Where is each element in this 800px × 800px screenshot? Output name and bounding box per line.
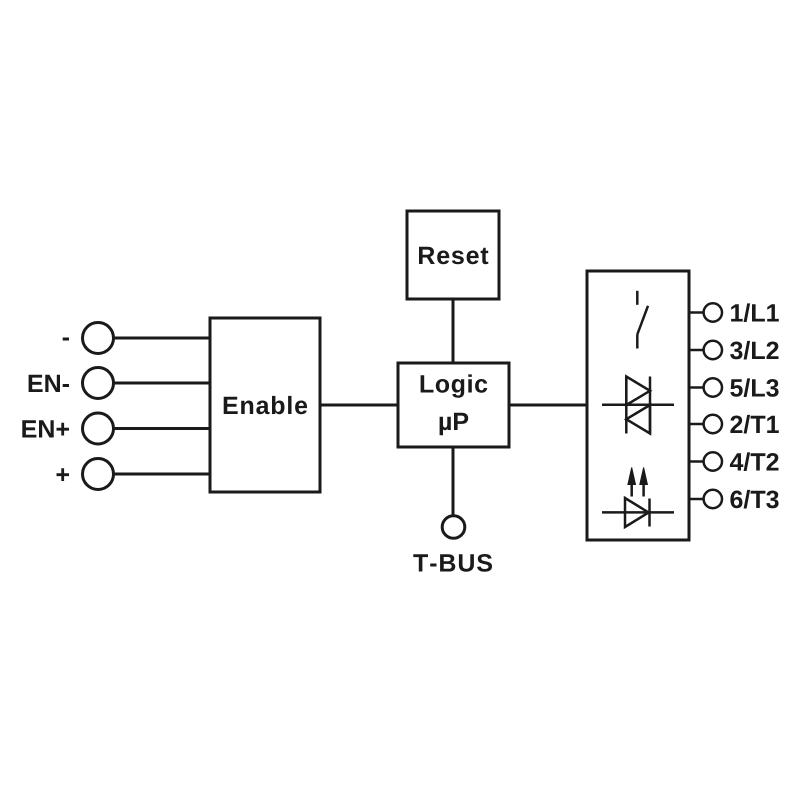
terminal circle EN+ bbox=[83, 413, 114, 444]
T-BUS terminal circle bbox=[442, 516, 465, 539]
wire Logic to T-BUS bbox=[452, 447, 455, 515]
terminal 4/T2 bbox=[688, 452, 779, 471]
label EN- input bbox=[29, 375, 69, 392]
block Logic uP bbox=[398, 363, 509, 447]
wire Logic to output block bbox=[509, 404, 587, 407]
wire plus to Enable bbox=[114, 473, 211, 476]
wire EN- to Enable bbox=[114, 382, 211, 385]
block Enable bbox=[210, 318, 320, 492]
terminal 3/L2 bbox=[688, 341, 779, 360]
terminal 5/L3 bbox=[688, 378, 779, 397]
label EN+ input bbox=[22, 420, 69, 437]
terminal circle EN- bbox=[83, 368, 114, 399]
LED optocoupler symbol bbox=[602, 468, 674, 528]
wire Reset to Logic bbox=[452, 299, 455, 363]
wire minus to Enable bbox=[114, 337, 211, 340]
output block bbox=[587, 271, 689, 540]
terminal circle plus bbox=[83, 459, 114, 490]
label T-BUS bbox=[413, 554, 492, 572]
block Reset bbox=[407, 211, 499, 299]
terminal circle minus bbox=[83, 323, 114, 354]
terminal 2/T1 bbox=[688, 415, 779, 434]
switch contact symbol bbox=[637, 291, 648, 349]
wire EN+ to Enable bbox=[114, 427, 211, 430]
label plus input bbox=[57, 468, 70, 481]
terminal 6/T3 bbox=[688, 490, 779, 509]
label minus input bbox=[63, 338, 69, 341]
triac symbol bbox=[602, 377, 674, 434]
terminal 1/L1 bbox=[688, 303, 779, 322]
wire Enable to Logic bbox=[320, 404, 398, 407]
